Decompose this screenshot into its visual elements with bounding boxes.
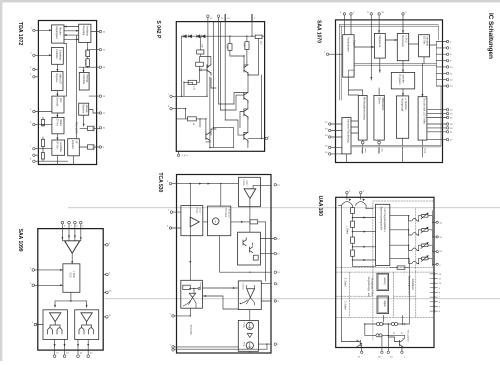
resistor chain R3: [351, 237, 355, 243]
svg-text:Begr.: Begr.: [424, 149, 427, 154]
wire bottom gnd: [178, 151, 180, 154]
pins right led: [436, 221, 438, 265]
pins right: [106, 244, 109, 319]
wires left half: [172, 36, 216, 135]
IC outline TCA530: [177, 175, 272, 354]
reference chain wire: [342, 205, 367, 341]
faint rule lower: [105, 298, 500, 300]
pin labels top: [340, 12, 407, 14]
current mirror pair a: [377, 322, 383, 325]
ground bus pair bottom: [352, 86, 441, 147]
block decoder LED I: [418, 97, 427, 140]
svg-text:Treiber: Treiber: [242, 283, 245, 290]
opamp triangle A: [244, 189, 256, 199]
resistor chain R2: [351, 221, 355, 227]
pin labels left tca: [167, 181, 172, 346]
svg-text:1, 4, 5: 1, 4, 5: [182, 155, 189, 157]
pins right upper group: [446, 40, 448, 87]
diode D2: [188, 35, 191, 38]
junction dots: [42, 49, 88, 150]
output transistor right: [395, 339, 404, 352]
svg-text:f: f: [215, 220, 216, 224]
block oscillator U1c: [52, 47, 64, 64]
pins bottom uaa: [361, 351, 404, 353]
svg-text:Schaltung: Schaltung: [58, 50, 61, 61]
pin labels right led: [439, 223, 442, 267]
tap arrowheads: [363, 217, 366, 262]
arrowheads bottom: [54, 344, 90, 347]
wires blocks to bus: [347, 138, 423, 162]
wire top pin drops: [208, 17, 252, 104]
svg-text:ZF-Ver-: ZF-Ver-: [55, 119, 58, 127]
pins bottom: [53, 355, 89, 358]
amp triangle left: [50, 313, 61, 322]
block band select F: [358, 95, 367, 140]
pin labels bottom uaa: [358, 356, 406, 358]
resistor R6: [255, 35, 262, 39]
wire mixer to vco: [71, 253, 73, 264]
block interface D: [419, 35, 430, 57]
scan gray band top: [0, 0, 500, 2]
diode D3: [196, 35, 199, 38]
pin labels top uaa: [349, 191, 365, 193]
pin ticks right lower: [434, 272, 436, 312]
pin right: [265, 137, 267, 139]
pin labels right lower: [450, 110, 453, 142]
resistor left c: [41, 153, 44, 160]
led rail verticals: [409, 211, 433, 267]
pins top: [343, 13, 404, 15]
pins top uaa: [346, 191, 362, 193]
svg-text:Wiedergabesteuerung: Wiedergabesteuerung: [363, 97, 366, 120]
arrowhead into resistor: [241, 221, 244, 223]
pins right: [99, 30, 101, 148]
pins left lower: [329, 123, 331, 155]
arrowhead vco: [71, 261, 73, 264]
resistor left b: [41, 139, 44, 146]
IC outline SAA1070: [336, 20, 443, 163]
pin labels right upper: [450, 42, 453, 89]
svg-text:Oszil-: Oszil-: [361, 149, 363, 155]
transistor pair left: [48, 322, 63, 334]
svg-text:Regel-: Regel-: [196, 208, 198, 215]
block program memory E: [391, 72, 414, 89]
svg-text:Verstärker: Verstärker: [86, 26, 89, 37]
svg-text:3. Drittel: 3. Drittel: [344, 301, 347, 310]
svg-text:Bandgap: Bandgap: [225, 209, 227, 219]
wires left pins to vco: [35, 270, 63, 325]
driver pair cross: [240, 285, 254, 305]
block series regulator A: [239, 177, 261, 206]
svg-text:Schaltkreis: Schaltkreis: [411, 279, 414, 291]
wire vco output branch: [55, 292, 87, 307]
svg-text:Anschluß: Anschluß: [426, 36, 429, 46]
block address decoder J: [342, 118, 351, 154]
arrowheads into mixer: [61, 236, 81, 240]
svg-text:u. Speicher: u. Speicher: [404, 99, 407, 111]
svg-text:Empf.: Empf.: [352, 40, 354, 46]
pin number labels: [30, 28, 106, 161]
transistor T5: [244, 109, 248, 119]
wire B to C: [203, 221, 208, 223]
wire top rail: [172, 184, 272, 281]
svg-text:anzeige: anzeige: [85, 105, 87, 114]
resistor R5: [245, 42, 249, 50]
block AGC amp U1b: [79, 24, 91, 42]
pins right tca: [274, 184, 276, 346]
resistor 45k lower: [86, 59, 90, 67]
svg-text:Adressen-Dekodierung: Adressen-Dekodierung: [346, 119, 349, 143]
junction dot branch: [70, 300, 72, 302]
transistor T3: [206, 132, 210, 142]
pins top: [61, 221, 82, 224]
svg-text:Demodu-: Demodu-: [55, 97, 57, 107]
wires to bottom pins: [55, 340, 89, 355]
block VCO U2: [63, 264, 80, 293]
arrowheads into vco: [60, 269, 63, 286]
pin labels bottom: [56, 353, 93, 355]
svg-text:Oszillator-: Oszillator-: [55, 49, 58, 60]
svg-text:Zählerstufen: Zählerstufen: [381, 98, 384, 111]
IC outline TDA1072: [38, 21, 96, 165]
svg-text:Deko-: Deko-: [377, 149, 379, 155]
svg-text:Abstimm-: Abstimm-: [82, 104, 85, 114]
pins right lower group: [446, 109, 448, 141]
wire left pin: [329, 53, 343, 55]
triangle between: [247, 334, 252, 338]
led cell 4: [390, 255, 436, 264]
pins top: [207, 15, 220, 17]
svg-text:Längs-: Längs-: [243, 180, 245, 187]
block regulator U1d: [52, 72, 64, 91]
arrowheads: [49, 26, 85, 141]
svg-text:verstärker: verstärker: [59, 142, 62, 152]
capacitor block lower right: [87, 145, 94, 149]
pin labels right tca: [277, 185, 280, 346]
wires right lower pins: [427, 110, 447, 140]
svg-text:45 kΩ: 45 kΩ: [84, 51, 86, 57]
comparator pair cross: [183, 288, 198, 308]
block demodulator U1f: [52, 96, 64, 113]
resistor R3: [188, 80, 197, 84]
block field-strength U1e: [79, 72, 89, 90]
block display logic H: [397, 96, 409, 138]
svg-text:Bezugskette: Bezugskette: [407, 331, 410, 343]
opamp triangle B: [190, 217, 199, 227]
led cell 3: [390, 242, 436, 252]
transistor marks in D: [243, 238, 253, 253]
svg-text:verst.: verst.: [199, 208, 202, 214]
pin labels top: [64, 225, 84, 227]
svg-text:TDA 1072: TDA 1072: [17, 22, 23, 46]
input hump Q1: [338, 194, 352, 206]
follower circle 2: [246, 342, 253, 349]
resistor R7: [188, 117, 197, 121]
svg-text:stärker ZF: stärker ZF: [58, 74, 61, 85]
wires around resistor: [231, 222, 266, 281]
svg-text:regler: regler: [246, 180, 249, 186]
block bandgap C: [208, 206, 231, 236]
block IF amp U1h: [52, 117, 64, 133]
svg-text:Bezugsspg.-Teiler: Bezugsspg.-Teiler: [370, 278, 373, 296]
svg-text:TCA 530: TCA 530: [189, 325, 193, 336]
pin labels left: [168, 94, 170, 108]
bias wire: [390, 259, 410, 268]
pins left: [33, 29, 35, 162]
IC outline SAA1099: [38, 229, 103, 351]
wires J connectors: [351, 121, 358, 133]
svg-text:Vergleichsspg.- und: Vergleichsspg.- und: [367, 277, 370, 298]
block input amp B: [181, 206, 203, 236]
comparator bank box: [376, 204, 390, 265]
svg-text:analog: analog: [383, 278, 385, 286]
resistor R1: [197, 50, 204, 54]
pins left: [170, 95, 172, 110]
svg-text:SAA 1099: SAA 1099: [17, 229, 23, 252]
pin left single: [326, 53, 328, 55]
svg-text:Spannungsvergleicher: Spannungsvergleicher: [380, 207, 383, 231]
resistor R2: [196, 62, 204, 66]
svg-text:S 042 P: S 042 P: [155, 21, 161, 39]
junction dots top: [190, 183, 222, 184]
svg-text:Eingangstell: Eingangstell: [55, 26, 58, 39]
svg-text:Taktgenerat.: Taktgenerat.: [378, 35, 381, 48]
svg-text:lator: lator: [364, 149, 367, 154]
diode D4: [202, 35, 205, 38]
svg-text:IC Schaltungen: IC Schaltungen: [487, 13, 494, 59]
pin labels right lower: [439, 274, 442, 313]
output transistor left: [351, 340, 362, 351]
pin labels left lower: [325, 122, 328, 154]
input hump Q2: [355, 194, 366, 206]
reference circle: [212, 218, 219, 225]
current mirror pair b: [391, 322, 397, 325]
transistor T6: [244, 132, 248, 142]
oscillator circle F: [361, 141, 364, 144]
svg-text:Kompar.: Kompar.: [199, 283, 202, 292]
pin bottom gnd: [177, 154, 179, 156]
svg-text:1. Drittel: 1. Drittel: [345, 226, 348, 235]
supply bus pair top: [340, 24, 439, 100]
svg-text:der: der: [380, 149, 383, 152]
IC outline S042P: [176, 22, 264, 152]
block current source D: [238, 232, 261, 265]
svg-text:digital: digital: [383, 301, 386, 307]
svg-text:Regelspg.: Regelspg.: [82, 26, 84, 37]
svg-text:NF-Vor-: NF-Vor-: [55, 141, 58, 149]
tap junction dots: [352, 217, 354, 261]
led cell 2: [390, 227, 436, 237]
arrowheads top rail: [189, 183, 210, 264]
svg-text:UAA 180: UAA 180: [317, 196, 323, 217]
output stage box right: [75, 310, 99, 340]
diode D1: [183, 35, 186, 38]
wires E to F: [202, 288, 238, 309]
dashed dividers: [336, 201, 434, 340]
svg-text:Programm-: Programm-: [398, 74, 401, 86]
mixer triangle A1: [65, 241, 80, 253]
wires mirrors: [365, 264, 410, 351]
wires right upper pins: [437, 42, 447, 87]
pins left: [32, 269, 37, 326]
svg-text:Folge: Folge: [243, 323, 245, 329]
transistor T1: [207, 65, 211, 75]
svg-text:speicher: speicher: [401, 75, 404, 84]
svg-text:und Regelverstärker u.: und Regelverstärker u.: [383, 209, 386, 234]
wires right half: [220, 36, 264, 147]
svg-text:45 kΩ: 45 kΩ: [84, 59, 86, 65]
svg-text:Anzeigelogik: Anzeigelogik: [401, 98, 404, 112]
led cell 1: [390, 213, 436, 223]
bias resistor: [397, 266, 405, 269]
svg-text:Referenz: Referenz: [228, 209, 231, 218]
wires top pins to mixer: [62, 224, 80, 241]
supply bus top: [182, 35, 265, 37]
svg-text:u. ALU: u. ALU: [404, 36, 407, 43]
block limiter U1g: [79, 103, 89, 115]
pins left tca: [169, 182, 174, 351]
block follower G: [238, 321, 258, 352]
wires bottom section: [174, 236, 271, 353]
pin stubs left upper pins: [35, 69, 38, 155]
wires input section: [35, 27, 99, 165]
capacitor block upper right: [87, 126, 94, 130]
svg-text:100 n: 100 n: [92, 127, 94, 133]
block analog: [377, 273, 389, 290]
svg-text:Mischer: Mischer: [59, 27, 62, 35]
pins right D: [260, 239, 274, 254]
pins right lower stubs: [430, 274, 438, 311]
svg-text:100 n: 100 n: [92, 145, 94, 151]
oscillator circle G: [378, 141, 381, 144]
resistor chain R1: [351, 208, 355, 214]
svg-text:VCO: VCO: [69, 273, 71, 278]
wires left pins into B: [172, 212, 181, 228]
block input/mixer U1a: [52, 25, 65, 43]
svg-text:Steuerwerk: Steuerwerk: [401, 35, 404, 47]
triangle F: [247, 289, 255, 298]
block remote receiver A: [343, 35, 354, 77]
wires block interconnect: [348, 40, 436, 97]
resistor chain R4: [351, 250, 355, 256]
sub rect E: [183, 285, 191, 289]
pin stubs right: [103, 245, 105, 317]
comparator taps: [353, 209, 376, 267]
svg-text:Regelver-: Regelver-: [55, 73, 58, 83]
block digital: [377, 296, 389, 314]
svg-text:Anzeige: Anzeige: [85, 74, 88, 83]
pin labels top: [210, 18, 256, 20]
current mirror pair c: [376, 334, 382, 337]
pin labels right: [109, 243, 112, 317]
pin labels left: [30, 267, 34, 324]
block driver F: [238, 281, 261, 310]
block counters G: [374, 95, 384, 140]
amp triangle right: [81, 313, 92, 322]
block control C: [397, 33, 408, 60]
wires center verticals: [206, 22, 234, 148]
transistor T4: [244, 92, 248, 102]
wires left lower pins: [331, 124, 342, 154]
svg-text:TCA 530: TCA 530: [157, 173, 163, 193]
node dot F: [240, 303, 241, 304]
arrowheads branch: [54, 305, 88, 308]
transistor T2: [244, 65, 248, 75]
resistor left a: [41, 119, 44, 126]
junction dots bottom: [190, 272, 268, 345]
scan gray strip left: [0, 0, 2, 361]
svg-text:Feldstärke: Feldstärke: [82, 74, 85, 85]
resistor 45k upper: [86, 50, 90, 57]
block comparator E: [181, 280, 203, 308]
block AF output U1j: [68, 139, 80, 156]
resistor R4: [228, 44, 232, 51]
follower circle 1: [246, 322, 253, 329]
wires top pins: [345, 15, 404, 80]
svg-text:Fernbedienteil: Fernbedienteil: [347, 37, 350, 52]
svg-text:Decoder und LED-Treiber: Decoder und LED-Treiber: [423, 98, 426, 124]
resistor R tca: [250, 220, 258, 224]
svg-text:1 MHz: 1 MHz: [72, 271, 74, 278]
IC outline UAA180: [336, 197, 434, 347]
block AF preamp U1i: [52, 140, 65, 155]
svg-text:2. Drittel: 2. Drittel: [344, 278, 347, 287]
comparator triangle: [189, 293, 195, 297]
svg-text:Endstufe: Endstufe: [71, 140, 74, 150]
svg-text:stärker: stärker: [59, 119, 62, 126]
arrowheads top: [370, 30, 404, 79]
junction dots s042p: [181, 36, 262, 149]
faint rule upper: [68, 207, 500, 209]
node circle E: [198, 287, 200, 289]
svg-text:I2C-Bus: I2C-Bus: [422, 36, 424, 45]
pin posts top: [225, 15, 252, 22]
output stage box left: [43, 310, 67, 340]
arrowheads interconnect: [372, 39, 424, 97]
svg-text:Ziffern-: Ziffern-: [378, 97, 381, 104]
data bus pair mid: [354, 42, 436, 87]
svg-text:SAA 1070: SAA 1070: [315, 20, 321, 43]
block clock gen B: [374, 33, 385, 58]
arrowheads E-F: [203, 287, 235, 297]
wires output section: [342, 337, 395, 342]
svg-text:lator: lator: [59, 98, 62, 103]
mirror junction dots: [364, 323, 405, 336]
small rect in D: [253, 255, 258, 260]
transistor pair right: [79, 322, 94, 334]
